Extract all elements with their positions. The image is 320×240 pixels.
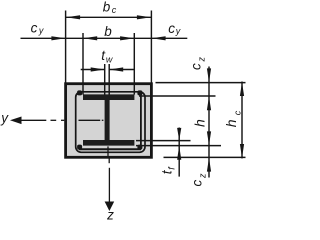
extension line concrete top right [156, 82, 246, 84]
extension line tw right [108, 64, 110, 95]
concrete encasement square [66, 84, 152, 158]
label hc [223, 110, 242, 127]
svg-text:c: c [189, 63, 204, 70]
svg-text:h: h [191, 119, 207, 127]
svg-text:c: c [232, 110, 242, 115]
steel I-section [83, 94, 134, 145]
svg-text:b: b [103, 0, 111, 15]
dimension line tw [81, 69, 105, 71]
svg-text:y: y [38, 26, 44, 36]
dimension line cy-b-cy [21, 37, 188, 39]
stirrup right leg line [140, 93, 142, 147]
rebar dot top-right [137, 90, 142, 95]
extension line bc left [65, 11, 67, 83]
svg-text:z: z [106, 208, 114, 222]
svg-text:c: c [190, 180, 205, 187]
dimension line hc [241, 82, 243, 159]
label cz bottom [190, 173, 208, 187]
svg-text:c: c [168, 21, 175, 36]
rebar dot bottom-left [77, 145, 82, 150]
svg-text:z: z [196, 57, 206, 63]
y axis arrowhead [10, 117, 22, 125]
svg-text:c: c [112, 5, 117, 15]
extension line flange bottom right [136, 145, 221, 147]
extension line b right [133, 33, 135, 95]
extension line flange bottom-top right [136, 140, 191, 142]
svg-text:f: f [167, 166, 177, 170]
y axis dash-dot centerline [21, 119, 103, 121]
label cz top [189, 57, 207, 71]
extension line flange top right [139, 95, 216, 97]
rebar dot top-left [77, 90, 82, 95]
svg-text:w: w [106, 55, 113, 65]
svg-text:y: y [175, 26, 181, 36]
stirrup bottom leg line [79, 148, 141, 150]
extension line bc right [150, 11, 152, 83]
label tf [159, 166, 176, 175]
label h [191, 119, 207, 127]
dimension line tf [178, 128, 180, 177]
extension line concrete bottom right [164, 156, 246, 158]
extension line tw left [104, 64, 106, 95]
z axis dash-dot centerline [108, 146, 109, 202]
svg-text:y: y [0, 111, 9, 126]
stirrup link (rounded rectangle) [76, 92, 145, 153]
dimension line cz-h-cz [208, 67, 210, 178]
z axis arrowhead [105, 202, 115, 212]
dimension line bc [66, 16, 152, 18]
svg-text:c: c [31, 21, 38, 36]
extension line b left [82, 33, 84, 95]
svg-text:b: b [104, 24, 112, 39]
svg-text:h: h [223, 119, 239, 127]
svg-text:z: z [197, 173, 207, 179]
rebar dot bottom-right [137, 145, 142, 150]
